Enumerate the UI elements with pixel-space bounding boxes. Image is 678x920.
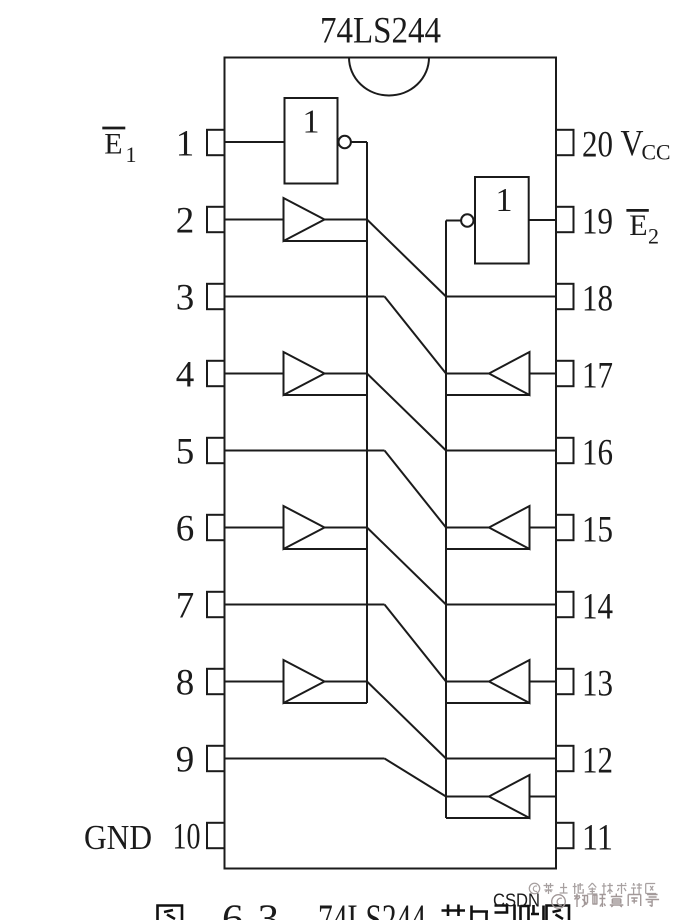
svg-text:4: 4 (176, 355, 195, 396)
left enable bus (vertical net from U1) (366, 142, 368, 703)
svg-text:8: 8 (176, 663, 195, 704)
enable gate U2 box ("1") (475, 177, 529, 264)
svg-text:20: 20 (582, 125, 613, 166)
pin 8 stub (207, 669, 225, 694)
wire pin 6 to buffer 1A3 input (225, 527, 284, 529)
wire pin 17 to buffer 2A1 input (530, 373, 557, 375)
wire to pin 14 (output 1Y3) (446, 604, 556, 606)
svg-text:5: 5 (176, 432, 195, 473)
svg-text:2: 2 (176, 201, 195, 242)
pin 2 stub (207, 207, 225, 232)
wire buffer 1A2 output to bus column (325, 373, 368, 375)
net label E2-bar (pin 19 enable input) (626, 209, 659, 249)
svg-text:15: 15 (582, 510, 613, 551)
enable line of buffer 1A1 to left bus (284, 240, 368, 242)
buffer 1A1 (tri-state, right-pointing) (284, 198, 325, 241)
pin 1 stub (207, 130, 225, 155)
enable line of buffer 1A2 to left bus (284, 394, 368, 396)
svg-text:2: 2 (648, 224, 659, 249)
buffer 1A4 (tri-state, right-pointing) (284, 660, 325, 703)
svg-text:10: 10 (173, 817, 201, 858)
svg-text:74LS244: 74LS244 (318, 896, 426, 920)
pin 13 stub (556, 669, 574, 694)
buffer 2A1 (tri-state, left-pointing) (489, 352, 530, 395)
enable line of buffer 2A4 to right bus (446, 817, 530, 819)
enable line of buffer 2A1 to right bus (446, 394, 530, 396)
svg-text:1: 1 (496, 182, 513, 219)
svg-text:17: 17 (582, 356, 613, 397)
pin 9 stub (207, 746, 225, 771)
wire to pin 16 (output 1Y2) (446, 450, 556, 452)
svg-text:7: 7 (176, 586, 195, 627)
pin 15 stub (556, 515, 574, 540)
wire U2 bubble to right enable bus (446, 220, 461, 222)
svg-text:E: E (104, 127, 122, 160)
wire pin 7 (output 2Y3) (225, 604, 385, 606)
enable line of buffer 1A3 to left bus (284, 548, 368, 550)
svg-text:CC: CC (642, 140, 671, 165)
pin 20 stub (556, 130, 574, 155)
svg-text:9: 9 (176, 740, 195, 781)
svg-text:3: 3 (176, 278, 195, 319)
diagonal wire buffer 1A3 output down to pin 14 row (367, 528, 446, 605)
wire pin 9 (output 2Y4) (225, 758, 385, 760)
pin 7 stub (207, 592, 225, 617)
pin-1 orientation notch (349, 58, 429, 96)
diagonal wire from pin 3 row down to buffer 2A1 output (385, 297, 447, 374)
wire U2 output to pin 19 (529, 219, 556, 221)
pin 12 stub (556, 746, 574, 771)
buffer 2A2 (tri-state, left-pointing) (489, 506, 530, 549)
pin 10 stub (207, 823, 225, 848)
svg-text:16: 16 (582, 433, 613, 474)
svg-text:18: 18 (582, 279, 613, 320)
svg-text:13: 13 (582, 664, 613, 705)
pin 11 stub (556, 823, 574, 848)
svg-text:6: 6 (176, 509, 195, 550)
wire pin 8 to buffer 1A4 input (225, 681, 284, 683)
buffer 1A2 (tri-state, right-pointing) (284, 352, 325, 395)
enable line of buffer 1A4 to left bus (284, 702, 368, 704)
wire buffer 2A4 output to bus column (446, 796, 489, 798)
pin 3 stub (207, 284, 225, 309)
svg-text:12: 12 (582, 741, 613, 782)
wire U1 bubble to left enable bus (351, 141, 367, 143)
wire pin 5 (output 2Y2) (225, 450, 385, 452)
buffer 2A4 (tri-state, left-pointing) (489, 775, 530, 818)
wire pin 3 (output 2Y1) (225, 296, 385, 298)
wire buffer 1A1 output to bus column (325, 219, 368, 221)
buffer 1A3 (tri-state, right-pointing) (284, 506, 325, 549)
diagonal wire from pin 5 row down to buffer 2A2 output (385, 451, 447, 528)
wire pin 4 to buffer 1A2 input (225, 373, 284, 375)
svg-text:1: 1 (126, 142, 137, 167)
pin 17 stub (556, 361, 574, 386)
power label VCC (pin 20) (621, 124, 671, 165)
pin 16 stub (556, 438, 574, 463)
wire buffer 2A1 output to bus column (446, 373, 489, 375)
pin 14 stub (556, 592, 574, 617)
wire pin 13 to buffer 2A3 input (530, 681, 557, 683)
wire pin 15 to buffer 2A2 input (530, 527, 557, 529)
diagonal wire from pin 7 row down to buffer 2A3 output (385, 605, 447, 682)
diagonal wire buffer 1A2 output down to pin 16 row (367, 374, 446, 451)
diagonal wire buffer 1A1 output down to pin 18 row (367, 220, 446, 297)
wire pin 1 to U1 input (225, 141, 285, 143)
wire pin 2 to buffer 1A1 input (225, 219, 284, 221)
wire pin 11 to buffer 2A4 input (530, 796, 557, 798)
svg-text:1: 1 (303, 104, 320, 141)
wire buffer 2A3 output to bus column (446, 681, 489, 683)
figure caption "图 6-3 74LS244 芯片引脚图" (bottom-clipped) (158, 906, 183, 920)
svg-text:11: 11 (582, 818, 613, 859)
svg-text:74LS244: 74LS244 (320, 11, 441, 52)
wire buffer 1A3 output to bus column (325, 527, 368, 529)
IC body outline U-74LS244 (225, 58, 557, 869)
diagonal wire from pin 9 row down to buffer 2A4 output (385, 759, 447, 797)
U1 inverting bubble (339, 136, 351, 148)
pin 19 stub (556, 207, 574, 232)
svg-text:GND: GND (84, 818, 152, 857)
enable line of buffer 2A3 to right bus (446, 702, 530, 704)
pin 4 stub (207, 361, 225, 386)
U2 inverting bubble (461, 214, 473, 226)
enable line of buffer 2A2 to right bus (446, 548, 530, 550)
op-amp-style enable gate U1 box ("1") (285, 98, 338, 184)
wire to pin 18 (output 1Y1) (446, 296, 556, 298)
diagonal wire buffer 1A4 output down to pin 12 row (367, 682, 446, 759)
buffer 2A3 (tri-state, left-pointing) (489, 660, 530, 703)
pin 18 stub (556, 284, 574, 309)
svg-text:E: E (629, 209, 647, 242)
wire buffer 2A2 output to bus column (446, 527, 489, 529)
svg-text:V: V (621, 124, 644, 165)
svg-text:14: 14 (582, 587, 613, 628)
net label E1-bar (pin 1 enable input) (102, 127, 136, 167)
watermark line 1 "@稀土掘金技术社区" (529, 883, 656, 894)
svg-text:1: 1 (176, 124, 195, 165)
svg-text:6-3: 6-3 (222, 896, 279, 920)
svg-text:CSDN: CSDN (493, 891, 540, 911)
pin 6 stub (207, 515, 225, 540)
wire to pin 12 (output 1Y4) (446, 758, 556, 760)
wire buffer 1A4 output to bus column (325, 681, 368, 683)
pin 5 stub (207, 438, 225, 463)
svg-text:19: 19 (582, 202, 613, 243)
right enable bus (vertical net from U2) (445, 221, 447, 819)
